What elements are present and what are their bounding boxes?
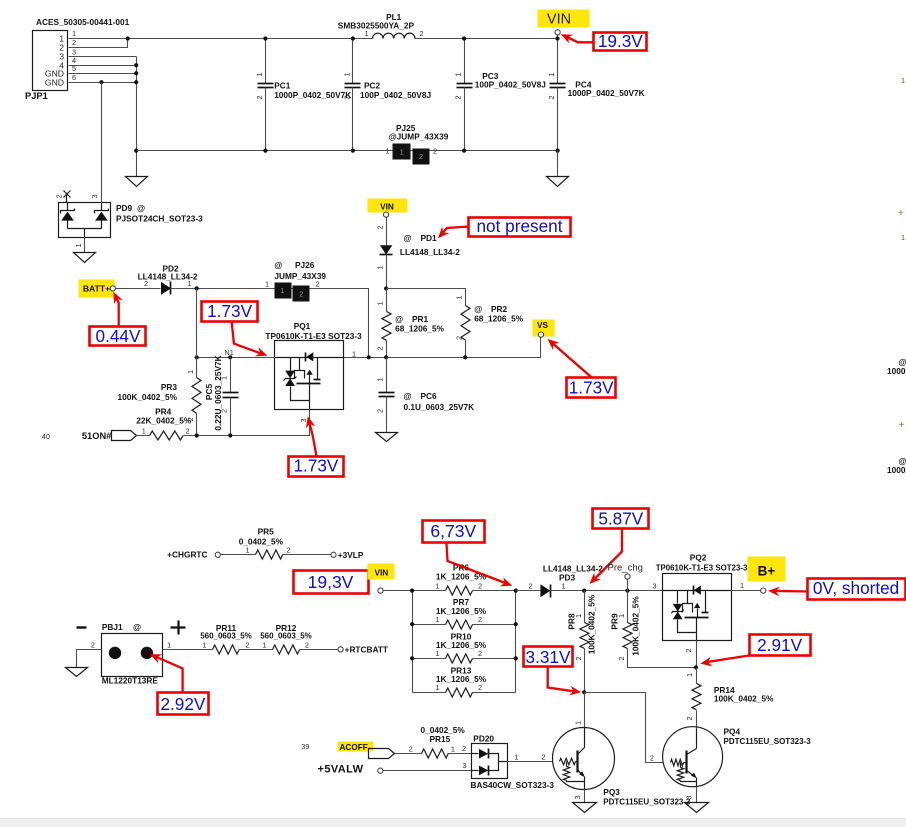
- svg-text:100K_0402_5%: 100K_0402_5%: [587, 594, 597, 654]
- resistor PR2: [455, 295, 524, 357]
- wire PD9 pin1 to ground: [84, 238, 86, 253]
- jumper PJ26: [265, 260, 326, 301]
- svg-text:TP0610K-T1-E3 SOT23-3: TP0610K-T1-E3 SOT23-3: [656, 563, 748, 572]
- svg-text:PJSOT24CH_SOT23-3: PJSOT24CH_SOT23-3: [116, 214, 203, 224]
- svg-text:2: 2: [305, 641, 309, 650]
- junction PD1/PR1/PR2: [384, 286, 388, 290]
- svg-text:3: 3: [685, 795, 694, 799]
- wire VIN to resistor ladder: [384, 590, 413, 592]
- svg-text:100K_0402_5%: 100K_0402_5%: [117, 392, 177, 402]
- junction PR2: [463, 355, 467, 359]
- svg-text:1: 1: [901, 233, 905, 242]
- svg-text:1: 1: [561, 581, 565, 590]
- wire pin5: [69, 73, 137, 75]
- wire junction to PQ3 collector: [584, 693, 586, 728]
- svg-text:SMB3025500YA_2P: SMB3025500YA_2P: [338, 21, 415, 31]
- junction PC1 bottom: [263, 149, 267, 153]
- ground symbol right of PJ25: [557, 151, 559, 177]
- junction PQ2 pin2 / PR9 / PR14: [694, 665, 698, 669]
- resistor PR11: [200, 623, 252, 654]
- svg-text:2: 2: [455, 336, 464, 340]
- svg-text:3: 3: [573, 795, 582, 799]
- svg-text:1: 1: [454, 72, 463, 76]
- svg-text:PQ3: PQ3: [603, 787, 620, 797]
- svg-text:2: 2: [255, 95, 264, 99]
- resistor PR14: [685, 668, 774, 729]
- svg-text:2.91V: 2.91V: [757, 635, 802, 655]
- signal 51ON#: [42, 431, 137, 442]
- annotation 1.73V at PQ1 pin3: [289, 416, 344, 476]
- svg-text:@: @: [404, 391, 412, 401]
- svg-text:2: 2: [574, 656, 583, 660]
- ground under PD9: [74, 253, 96, 263]
- svg-text:1K_1206_5%: 1K_1206_5%: [436, 606, 487, 616]
- wire PR12 to +RTCBATT: [300, 649, 339, 651]
- ground bus vertical from pins 3-6: [136, 57, 138, 177]
- svg-text:3: 3: [90, 194, 99, 198]
- ladder buses: [413, 591, 516, 693]
- wire PR11 to PR12: [240, 649, 273, 651]
- svg-text:0_0402_5%: 0_0402_5%: [239, 537, 284, 547]
- svg-text:19.3V: 19.3V: [598, 31, 643, 51]
- svg-text:PC2: PC2: [364, 80, 381, 90]
- node VIN (bottom terminal): [368, 564, 395, 594]
- svg-text:LL4148_LL34-2: LL4148_LL34-2: [400, 247, 460, 257]
- svg-text:6,73V: 6,73V: [430, 521, 476, 541]
- junction PR8 / PQ3 / PQ4 base: [582, 690, 586, 694]
- signal +5VALW: [318, 744, 472, 776]
- svg-text:2: 2: [478, 615, 482, 624]
- svg-text:2: 2: [72, 38, 76, 47]
- resistor PR13: [413, 665, 516, 697]
- svg-text:BATT+: BATT+: [83, 284, 110, 294]
- svg-text:+5VALW: +5VALW: [318, 764, 364, 776]
- svg-text:1: 1: [255, 72, 264, 76]
- connector PJP1: [25, 17, 130, 101]
- svg-text:3.31V: 3.31V: [526, 647, 571, 667]
- wire PD3 to PQ2: [551, 590, 663, 592]
- resistor PR8: [566, 591, 596, 693]
- svg-text:VIN: VIN: [374, 567, 388, 577]
- svg-text:1: 1: [188, 279, 192, 288]
- resistor PR3: [117, 370, 201, 436]
- svg-text:PR8: PR8: [566, 613, 576, 630]
- svg-text:2: 2: [685, 716, 694, 720]
- wire PJ26 to PQ1 pin1 net: [310, 289, 369, 358]
- capacitor PC6: [375, 358, 474, 433]
- svg-text:1: 1: [547, 72, 556, 76]
- junction PR8: [582, 589, 586, 593]
- svg-text:1000P: 1000P: [887, 465, 906, 475]
- svg-text:2: 2: [91, 641, 95, 650]
- svg-text:1: 1: [455, 295, 464, 299]
- annotation 1.73V at VS: [548, 339, 616, 398]
- junction PC1 top: [263, 36, 267, 40]
- svg-text:PD9: PD9: [116, 203, 133, 213]
- resistor PR12: [260, 623, 312, 654]
- capacitor PC5: [204, 355, 239, 435]
- svg-text:2: 2: [55, 194, 64, 198]
- svg-text:TP0610K-T1-E3 SOT23-3: TP0610K-T1-E3 SOT23-3: [265, 331, 362, 341]
- ground under PQ4: [685, 803, 709, 813]
- svg-text:PD1: PD1: [421, 233, 438, 243]
- svg-text:+: +: [899, 420, 905, 431]
- svg-text:2: 2: [528, 581, 532, 590]
- svg-text:PD20: PD20: [473, 734, 494, 744]
- svg-text:3: 3: [72, 47, 76, 56]
- svg-text:1: 1: [342, 72, 351, 76]
- annotation 3.31V: [524, 647, 582, 696]
- svg-text:2: 2: [433, 147, 437, 156]
- resistor PR1: [375, 289, 444, 358]
- svg-text:1: 1: [375, 301, 384, 305]
- svg-text:1: 1: [451, 744, 455, 753]
- svg-text:1: 1: [515, 752, 519, 761]
- junction PJ26 branch: [367, 355, 371, 359]
- wire PQ2 to B+: [732, 590, 761, 592]
- svg-text:PBJ1: PBJ1: [102, 622, 123, 632]
- svg-text:1: 1: [435, 581, 439, 590]
- svg-text:1.73V: 1.73V: [293, 456, 338, 476]
- wire BATT+ to PD2: [116, 288, 161, 290]
- svg-text:39: 39: [301, 742, 309, 751]
- svg-text:BAS40CW_SOT323-3: BAS40CW_SOT323-3: [471, 780, 555, 790]
- svg-text:22K_0402_5%: 22K_0402_5%: [136, 416, 192, 426]
- junction PC2 bottom: [351, 149, 355, 153]
- signal +CHGRTC / resistor PR5 / +3VLP: [167, 527, 364, 561]
- svg-text:ACOFF: ACOFF: [340, 743, 368, 752]
- svg-text:PJP1: PJP1: [25, 91, 48, 101]
- svg-text:5.87V: 5.87V: [598, 509, 643, 529]
- svg-text:3: 3: [463, 761, 467, 770]
- svg-text:0.1U_0603_25V7K: 0.1U_0603_25V7K: [404, 402, 475, 412]
- NPN digital transistor PQ4: [650, 726, 811, 786]
- capacitor PC3: [454, 39, 547, 151]
- junction BATT+ net / PR3 branch: [195, 286, 199, 290]
- svg-text:1000P: 1000P: [887, 366, 906, 376]
- svg-text:51ON#: 51ON#: [82, 431, 112, 441]
- junction ladder right: [514, 622, 518, 626]
- svg-text:1000P_0402_50V7K: 1000P_0402_50V7K: [568, 88, 645, 98]
- svg-text:PQ2: PQ2: [690, 553, 707, 563]
- diode PD1: [380, 233, 461, 257]
- svg-text:2: 2: [684, 648, 693, 652]
- junction Pre_chg/PR9: [625, 589, 629, 593]
- svg-text:ML1220T13RE: ML1220T13RE: [102, 675, 159, 685]
- junction ground bus / bottom rail: [134, 149, 138, 153]
- svg-text:+RTCBATT: +RTCBATT: [345, 645, 388, 655]
- svg-text:ACES_50305-00441-001: ACES_50305-00441-001: [36, 17, 130, 27]
- annotation 1.73V at PQ1 gate: [202, 301, 268, 357]
- resistor PR10: [413, 631, 516, 663]
- wire N1 net: [197, 357, 275, 359]
- wire pin1 to top rail VIN net: [69, 38, 558, 40]
- junction PR3/rail: [195, 433, 199, 437]
- svg-text:1: 1: [573, 721, 582, 725]
- svg-text:0.44V: 0.44V: [96, 326, 141, 346]
- svg-text:1: 1: [186, 370, 195, 374]
- junction pin6 to PD9: [99, 80, 103, 84]
- node +RTCBATT: [338, 647, 343, 652]
- svg-text:1K_1206_5%: 1K_1206_5%: [436, 640, 487, 650]
- svg-text:2: 2: [542, 752, 546, 761]
- junction PC3 top: [462, 36, 466, 40]
- svg-text:Pre_chg: Pre_chg: [608, 563, 643, 574]
- junction ladder left: [410, 589, 414, 593]
- svg-text:1: 1: [202, 641, 206, 650]
- svg-text:2: 2: [409, 744, 413, 753]
- svg-text:2: 2: [144, 279, 148, 288]
- svg-text:2: 2: [547, 95, 556, 99]
- svg-text:1: 1: [280, 288, 284, 295]
- svg-text:1: 1: [901, 76, 905, 85]
- annotation 0V, shorted: [768, 578, 906, 599]
- p-channel MOSFET PQ2: [653, 553, 748, 641]
- svg-text:560_0603_5%: 560_0603_5%: [260, 632, 312, 641]
- annotation 19.3V: [561, 31, 647, 51]
- svg-text:1K_1206_5%: 1K_1206_5%: [436, 674, 487, 684]
- wire pin6: [69, 82, 137, 84]
- svg-text:VIN: VIN: [547, 12, 571, 28]
- svg-text:19,3V: 19,3V: [308, 572, 354, 592]
- svg-text:1: 1: [245, 545, 249, 554]
- annotation 0.44V: [90, 292, 146, 346]
- svg-text:PR9: PR9: [610, 613, 620, 630]
- junction BATT branch: [195, 355, 199, 359]
- junction N1/PC5: [228, 355, 232, 359]
- svg-text:68_1206_5%: 68_1206_5%: [474, 313, 524, 323]
- ground symbol under connector: [126, 177, 148, 187]
- annotation 6,73V: [423, 521, 513, 587]
- wire bottom rail to PQ1 pin3: [184, 410, 310, 436]
- capacitor PC1: [255, 39, 351, 151]
- wire BATT+ down to PR3: [196, 289, 198, 378]
- svg-text:2: 2: [478, 581, 482, 590]
- svg-text:1: 1: [72, 29, 76, 38]
- node VIN (top terminal): [538, 10, 590, 41]
- svg-text:100P_0402_50V8J: 100P_0402_50V8J: [360, 90, 431, 100]
- svg-text:1: 1: [265, 280, 269, 289]
- inductor PL1: [338, 12, 424, 39]
- wire PD20 to PQ3 base: [508, 761, 553, 763]
- svg-text:VIN: VIN: [380, 202, 394, 212]
- wire VIN to PD1: [386, 218, 388, 246]
- svg-text:PR5: PR5: [258, 527, 275, 537]
- node VIN (middle terminal): [368, 199, 408, 218]
- svg-text:2: 2: [650, 753, 654, 762]
- svg-text:1: 1: [365, 29, 369, 38]
- junction pin5: [134, 71, 138, 75]
- wire PD1 to junction: [386, 255, 388, 289]
- svg-text:+3VLP: +3VLP: [338, 550, 364, 560]
- diode PD3: [528, 564, 603, 598]
- junction ladder right: [514, 656, 518, 660]
- svg-text:1: 1: [142, 427, 146, 436]
- svg-text:100P_0402_50V8J: 100P_0402_50V8J: [475, 80, 546, 90]
- svg-text:0.22U_0603_25V7K: 0.22U_0603_25V7K: [213, 355, 223, 430]
- wire PQ4 emitter to ground: [696, 787, 698, 803]
- svg-text:not present: not present: [477, 216, 563, 236]
- svg-text:1: 1: [262, 641, 266, 650]
- svg-text:2: 2: [419, 154, 423, 161]
- svg-text:PC6: PC6: [421, 391, 438, 401]
- svg-text:1: 1: [74, 243, 83, 247]
- svg-text:1: 1: [435, 683, 439, 692]
- svg-text:PJ26: PJ26: [295, 260, 315, 270]
- wire PD2 to PJ26: [171, 288, 369, 290]
- svg-text:2: 2: [299, 291, 303, 298]
- junction PR1/PC6: [384, 355, 388, 359]
- svg-text:PC1: PC1: [274, 80, 291, 90]
- resistor PR4: [136, 407, 192, 441]
- diode PD2: [138, 264, 198, 295]
- node BATT+: [79, 280, 116, 298]
- svg-text:VS: VS: [537, 320, 549, 330]
- svg-text:1: 1: [375, 265, 384, 269]
- svg-text:1: 1: [740, 581, 744, 590]
- svg-text:1: 1: [685, 673, 694, 677]
- svg-text:2: 2: [245, 641, 249, 650]
- ground under PQ3: [573, 803, 597, 813]
- wire PQ1 pin1 to VS: [345, 338, 541, 358]
- resistor PR9: [610, 591, 697, 668]
- svg-text:1: 1: [375, 377, 384, 381]
- svg-text:PR3: PR3: [161, 382, 178, 392]
- svg-text:3: 3: [653, 581, 657, 590]
- bottom window strip: [0, 819, 906, 827]
- battery PBJ1: [77, 621, 186, 686]
- annotation not present: [438, 216, 571, 238]
- wire junction to PQ4 base: [585, 693, 663, 763]
- node VS: [533, 320, 555, 338]
- annotation 2.92V: [150, 654, 209, 714]
- wire PQ3 emitter to ground: [584, 790, 586, 803]
- wire pin4: [69, 65, 137, 67]
- svg-text:PDTC115EU_SOT323-3: PDTC115EU_SOT323-3: [724, 737, 812, 746]
- signal ACOFF: [301, 742, 394, 759]
- junction PC3 bottom: [462, 149, 466, 153]
- svg-text:1: 1: [167, 641, 171, 650]
- annotation 19,3V: [294, 571, 369, 594]
- svg-text:2: 2: [462, 744, 466, 753]
- svg-text:PDTC115EU_SOT323-3: PDTC115EU_SOT323-3: [603, 797, 691, 806]
- annotation 5.87V: [590, 509, 649, 585]
- svg-text:1: 1: [386, 147, 390, 156]
- svg-text:100K_0402_5%: 100K_0402_5%: [714, 694, 774, 704]
- svg-text:2: 2: [478, 683, 482, 692]
- svg-text:2.92V: 2.92V: [160, 694, 205, 714]
- svg-text:560_0603_5%: 560_0603_5%: [200, 632, 252, 641]
- svg-text:2: 2: [617, 656, 626, 660]
- svg-text:2: 2: [420, 29, 424, 38]
- svg-text:2: 2: [375, 409, 384, 413]
- svg-text:0V, shorted: 0V, shorted: [813, 578, 899, 598]
- svg-text:2: 2: [342, 95, 351, 99]
- svg-text:@: @: [404, 233, 412, 243]
- svg-text:PQ4: PQ4: [724, 726, 741, 736]
- svg-text:68_1206_5%: 68_1206_5%: [395, 323, 445, 333]
- junction PC5/rail: [228, 433, 232, 437]
- ground under PC6: [376, 433, 398, 442]
- svg-text:GND: GND: [45, 77, 64, 87]
- resistor PR6: [413, 562, 516, 595]
- svg-text:1.73V: 1.73V: [569, 377, 614, 397]
- svg-text:2: 2: [286, 545, 290, 554]
- svg-text:1: 1: [435, 649, 439, 658]
- jumper PJ25: [386, 123, 449, 165]
- junction ladder left: [410, 622, 414, 626]
- annotation 2.91V: [700, 635, 810, 667]
- svg-text:6: 6: [72, 73, 76, 82]
- svg-text:@: @: [274, 260, 282, 270]
- junction PC4 bottom / ground: [556, 149, 560, 153]
- dual schottky diode PD20: [471, 734, 555, 791]
- svg-text:PR15: PR15: [430, 734, 451, 744]
- ground under PBJ1: [66, 668, 88, 677]
- wire to PD9 pin3: [101, 83, 103, 203]
- junction PC2 top: [351, 36, 355, 40]
- svg-text:@: @: [137, 203, 145, 213]
- junction pin1/pin2: [126, 36, 130, 40]
- wire ladder to PD3: [516, 590, 541, 592]
- junction ladder left: [410, 656, 414, 660]
- svg-text:@JUMP_43X39: @JUMP_43X39: [389, 132, 449, 142]
- wire junction to PR2: [387, 289, 466, 306]
- svg-text:PQ1: PQ1: [294, 321, 311, 331]
- svg-text:3: 3: [299, 418, 308, 422]
- wire pin3: [69, 56, 137, 58]
- node Pre_chg: [608, 563, 643, 591]
- svg-text:2: 2: [454, 95, 463, 99]
- svg-text:1: 1: [352, 350, 356, 359]
- resistor PR7: [413, 597, 516, 629]
- resistor PR15: [395, 725, 472, 758]
- ground rail (bottom): [137, 150, 558, 152]
- dual diode PD9: [55, 191, 204, 238]
- p-channel MOSFET PQ1: [265, 321, 362, 410]
- svg-text:1000P_0402_50V7K: 1000P_0402_50V7K: [274, 90, 351, 100]
- svg-text:+CHGRTC: +CHGRTC: [167, 550, 207, 560]
- junction pin6: [134, 80, 138, 84]
- svg-text:2: 2: [185, 427, 189, 436]
- junction pin4: [134, 63, 138, 67]
- svg-text:1.73V: 1.73V: [207, 301, 252, 321]
- svg-text:2: 2: [375, 225, 384, 229]
- junction ladder right: [514, 589, 518, 593]
- svg-text:2: 2: [375, 346, 384, 350]
- capacitor PC2: [342, 39, 431, 151]
- svg-text:+: +: [898, 208, 904, 219]
- NPN digital transistor PQ3: [553, 728, 692, 807]
- svg-text:1: 1: [435, 615, 439, 624]
- svg-text:40: 40: [42, 432, 50, 441]
- svg-text:1: 1: [400, 150, 404, 157]
- svg-text:2: 2: [316, 280, 320, 289]
- svg-text:@: @: [133, 622, 141, 632]
- svg-text:100K_0402_5%: 100K_0402_5%: [630, 596, 640, 656]
- capacitor PC4: [547, 39, 645, 151]
- wire PQ2 pin2 down: [696, 641, 698, 668]
- svg-text:B+: B+: [758, 564, 776, 579]
- wire pin2 joins pin1: [69, 39, 128, 48]
- node B+: [748, 557, 786, 594]
- svg-text:2: 2: [478, 649, 482, 658]
